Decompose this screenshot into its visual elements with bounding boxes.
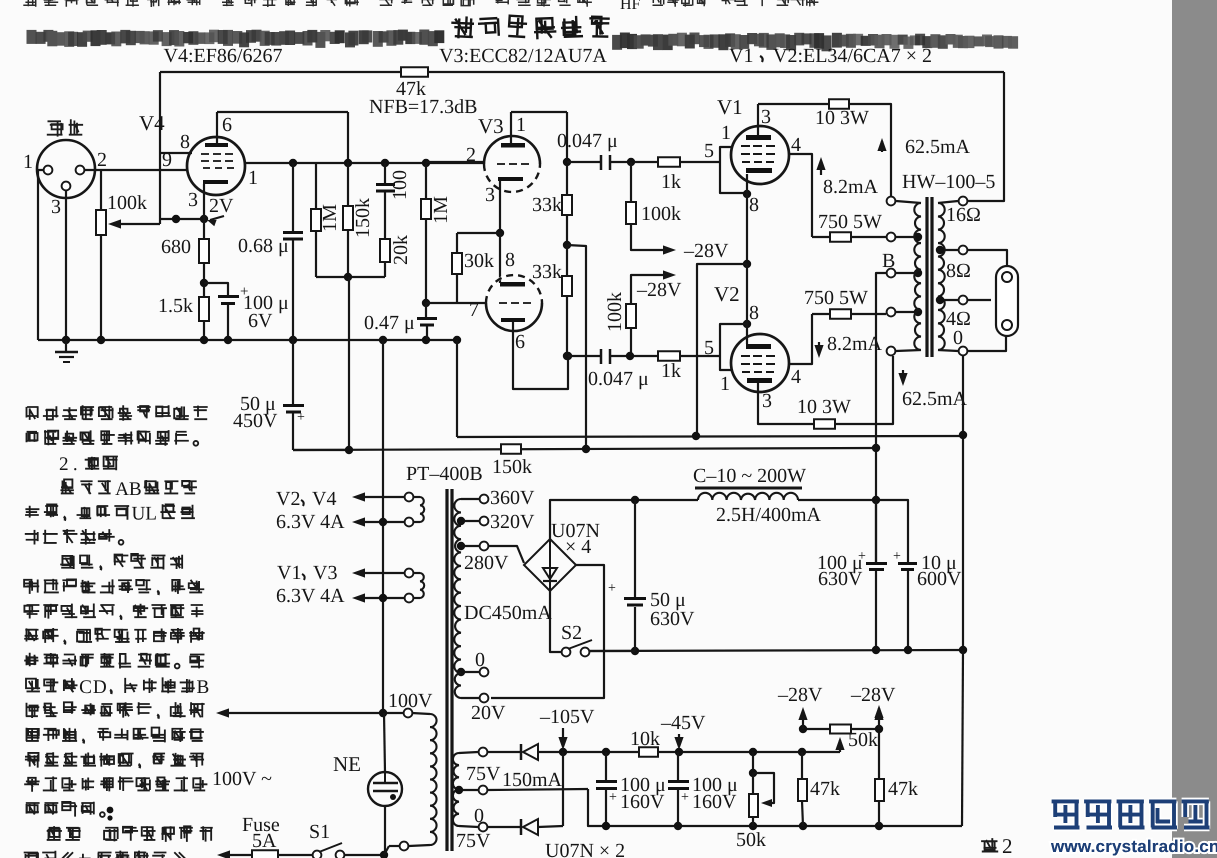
svg-text:8: 8 <box>749 302 759 324</box>
svg-text:.: . <box>73 454 78 475</box>
svg-text:B: B <box>197 677 210 698</box>
svg-text:2: 2 <box>1002 834 1013 858</box>
svg-text:3: 3 <box>188 189 198 211</box>
svg-text:5: 5 <box>704 140 714 162</box>
svg-text:4: 4 <box>791 366 801 388</box>
svg-text:–45V: –45V <box>660 712 706 734</box>
svg-text:HF: HF <box>620 0 641 13</box>
svg-text:V3:ECC82/12AU7A: V3:ECC82/12AU7A <box>439 45 607 67</box>
svg-text:3: 3 <box>51 196 61 218</box>
svg-text:600V: 600V <box>917 568 962 590</box>
svg-text:C–10 ~ 200W: C–10 ~ 200W <box>693 465 806 487</box>
svg-text:5: 5 <box>704 337 714 359</box>
svg-text:6.3V 4A: 6.3V 4A <box>276 585 345 607</box>
svg-text:5A: 5A <box>252 830 277 852</box>
svg-text:20V: 20V <box>471 702 506 724</box>
svg-text:1M: 1M <box>430 196 452 224</box>
svg-text:1: 1 <box>721 122 731 144</box>
svg-text:C: C <box>79 677 92 698</box>
svg-text:3: 3 <box>761 106 771 128</box>
svg-text:33k: 33k <box>532 261 562 283</box>
svg-text:1k: 1k <box>661 360 681 382</box>
svg-text:4: 4 <box>791 134 801 156</box>
svg-text:50k: 50k <box>736 829 766 851</box>
svg-text:–28V: –28V <box>636 279 682 301</box>
svg-text:V3: V3 <box>313 562 337 584</box>
svg-text:+: + <box>608 581 616 596</box>
svg-text:1: 1 <box>516 114 526 136</box>
svg-text:+: + <box>681 790 689 805</box>
svg-text:V4: V4 <box>139 111 165 135</box>
svg-text:0.047 μ: 0.047 μ <box>588 368 649 390</box>
svg-text:1M: 1M <box>319 204 341 232</box>
svg-text:NE: NE <box>333 752 361 776</box>
svg-text:8.2mA: 8.2mA <box>823 176 879 198</box>
svg-text:HW–100–5: HW–100–5 <box>902 171 995 193</box>
svg-text:62.5mA: 62.5mA <box>902 388 968 410</box>
svg-text:100k: 100k <box>641 203 681 225</box>
svg-text:150k: 150k <box>352 198 374 238</box>
svg-text:6.3V 4A: 6.3V 4A <box>276 511 345 533</box>
svg-text:100k: 100k <box>604 292 626 332</box>
svg-text:8.2mA: 8.2mA <box>827 333 883 355</box>
svg-text:V1: V1 <box>277 562 301 584</box>
svg-text:S1: S1 <box>309 821 330 843</box>
svg-text:6V: 6V <box>248 310 273 332</box>
svg-text:2: 2 <box>97 149 107 171</box>
svg-text:630V: 630V <box>818 568 863 590</box>
svg-text:47k: 47k <box>810 778 840 800</box>
svg-text:10 3W: 10 3W <box>815 107 869 129</box>
svg-text:50k: 50k <box>848 729 878 751</box>
svg-text:L: L <box>145 504 157 525</box>
svg-text:A: A <box>115 479 129 500</box>
svg-text:680: 680 <box>161 236 191 258</box>
svg-text:100V ~: 100V ~ <box>212 768 272 790</box>
svg-text:100k: 100k <box>107 192 147 214</box>
svg-text:2.5H/400mA: 2.5H/400mA <box>716 504 822 526</box>
svg-text:150mA: 150mA <box>502 769 563 791</box>
svg-text:V4:EF86/6267: V4:EF86/6267 <box>164 45 283 67</box>
svg-text:V2: V2 <box>714 282 740 306</box>
svg-text:6: 6 <box>515 331 525 353</box>
svg-text:62.5mA: 62.5mA <box>905 136 971 158</box>
svg-text:20k: 20k <box>390 235 412 265</box>
svg-text:V4: V4 <box>312 488 336 510</box>
svg-text:S2: S2 <box>561 622 582 644</box>
svg-text:750 5W: 750 5W <box>804 287 868 309</box>
svg-text:V2:EL34/6CA7 × 2: V2:EL34/6CA7 × 2 <box>773 45 932 67</box>
svg-text:–105V: –105V <box>539 706 595 728</box>
svg-text:D: D <box>93 677 107 698</box>
svg-text:PT–400B: PT–400B <box>406 463 483 485</box>
svg-text:+: + <box>609 790 617 805</box>
svg-text:160V: 160V <box>692 791 737 813</box>
svg-text:0: 0 <box>474 805 484 827</box>
svg-text:V1: V1 <box>717 95 743 119</box>
svg-text:0: 0 <box>953 327 963 349</box>
svg-text:0.047 μ: 0.047 μ <box>557 130 618 152</box>
svg-text:V2: V2 <box>276 488 300 510</box>
svg-text:360V: 360V <box>490 487 535 509</box>
svg-text:100: 100 <box>389 170 411 200</box>
svg-text:NFB=17.3dB: NFB=17.3dB <box>369 96 478 118</box>
svg-text:8: 8 <box>180 131 190 153</box>
svg-text:0: 0 <box>475 649 485 671</box>
svg-text:33k: 33k <box>532 194 562 216</box>
svg-text:9: 9 <box>162 149 172 171</box>
svg-text:8: 8 <box>505 249 515 271</box>
svg-text:75V: 75V <box>466 763 501 785</box>
svg-text:3: 3 <box>485 184 495 206</box>
svg-text:1.5k: 1.5k <box>158 295 193 317</box>
svg-text:320V: 320V <box>490 511 535 533</box>
svg-text:1: 1 <box>248 167 258 189</box>
svg-text:2: 2 <box>59 454 69 475</box>
svg-text:V1: V1 <box>729 45 753 67</box>
svg-text:+: + <box>893 549 901 564</box>
svg-text:1: 1 <box>23 151 33 173</box>
svg-text:10k: 10k <box>630 728 660 750</box>
svg-text:B: B <box>882 250 895 272</box>
svg-text:75V: 75V <box>456 830 491 852</box>
svg-text:30k: 30k <box>464 250 494 272</box>
svg-text:+: + <box>297 410 305 425</box>
svg-text:0.47 μ: 0.47 μ <box>364 312 415 334</box>
svg-text:DC450mA: DC450mA <box>464 602 552 624</box>
svg-text:–28V: –28V <box>683 240 729 262</box>
svg-text:1k: 1k <box>661 171 681 193</box>
svg-text:630V: 630V <box>650 608 695 630</box>
svg-text:U07N × 2: U07N × 2 <box>545 840 625 858</box>
svg-text:8: 8 <box>749 194 759 216</box>
svg-text:2V: 2V <box>209 195 234 217</box>
svg-text:1: 1 <box>720 373 730 395</box>
svg-text:160V: 160V <box>620 791 665 813</box>
svg-text:B: B <box>129 479 142 500</box>
svg-text:3: 3 <box>762 390 772 412</box>
svg-text:6: 6 <box>222 114 232 136</box>
svg-text:450V: 450V <box>233 410 278 432</box>
svg-text:47k: 47k <box>888 778 918 800</box>
svg-text:750 5W: 750 5W <box>818 211 882 233</box>
svg-text:V3: V3 <box>478 114 504 138</box>
svg-text:–28V: –28V <box>850 684 896 706</box>
svg-text:16Ω: 16Ω <box>946 204 981 226</box>
svg-text:–28V: –28V <box>777 684 823 706</box>
svg-text:www.crystalradio.cn: www.crystalradio.cn <box>1050 837 1217 856</box>
svg-text:280V: 280V <box>464 552 509 574</box>
svg-text:8Ω: 8Ω <box>946 260 971 282</box>
svg-text:100V: 100V <box>388 690 433 712</box>
svg-text:U: U <box>131 504 145 525</box>
svg-text:× 4: × 4 <box>565 536 591 558</box>
svg-text:150k: 150k <box>492 456 532 478</box>
svg-text:10 3W: 10 3W <box>797 396 851 418</box>
svg-text:0.68 μ: 0.68 μ <box>238 235 289 257</box>
